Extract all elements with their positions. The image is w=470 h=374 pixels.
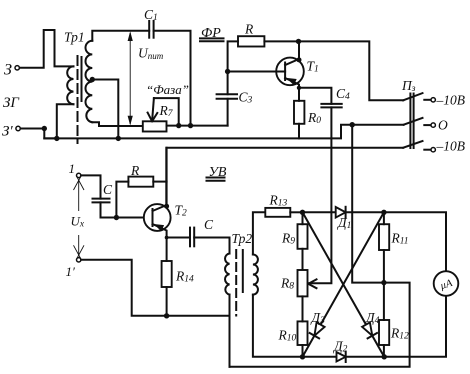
Тр1 tap wire down to bus [92, 80, 118, 139]
node R11-R12 (common) [381, 280, 386, 285]
Тр2 primary winding [225, 254, 229, 295]
wire З to Тр1 primary top (with jog) [20, 30, 74, 68]
bridge top wire with Д1 [303, 211, 336, 213]
node collector / top wire [296, 39, 301, 44]
node T1 emitter [297, 86, 301, 90]
R left lead down to base node [116, 182, 128, 218]
bottom switch wire to УВ [166, 148, 403, 207]
terminal З [4, 62, 19, 79]
wire Д2 to bottom-right node and meter [346, 296, 446, 357]
Тр2 secondary bottom lead to bridge bottom [253, 295, 303, 357]
Тр1 secondary winding [86, 41, 93, 123]
C4 bottom lead down to R8 wiper [308, 107, 331, 283]
node on З' wire [42, 126, 47, 131]
resistor R (УВ) [128, 163, 153, 187]
svg-text:ЗГ: ЗГ [3, 95, 20, 111]
svg-text:R: R [244, 22, 254, 37]
terminal 1 [69, 161, 81, 178]
svg-text:С: С [204, 217, 214, 232]
svg-text:R: R [130, 163, 140, 178]
node bus / Тр1 primary bottom [54, 136, 59, 141]
svg-text:З′: З′ [2, 124, 13, 140]
bridge bottom wire with Д2 [303, 356, 337, 358]
wire switch middle node down to R11-R12 node [230, 125, 410, 367]
svg-text:Тр1: Тр1 [64, 30, 85, 45]
resistor R10 [278, 296, 308, 356]
svg-text:1′: 1′ [66, 264, 76, 279]
switch П3 arms [403, 93, 422, 148]
capacitor C (coupling) [190, 217, 214, 246]
Тр2 core solid line [242, 250, 244, 292]
switch contacts right [424, 98, 435, 152]
bridge bottom-left node [300, 354, 305, 359]
wire R left / C3 vertical [228, 41, 238, 94]
node T1 base / C3 [225, 69, 230, 74]
meter μA [434, 271, 459, 296]
svg-text:О: О [438, 118, 448, 133]
svg-text:–10В: –10В [436, 139, 466, 154]
wire R7 right to C3 bottom [167, 125, 228, 127]
svg-text:З: З [4, 62, 12, 79]
section label ФР [200, 26, 224, 41]
wire terminal 1 to C [81, 175, 100, 198]
diagonal node A to bottom-right [303, 212, 385, 356]
Ux arrow top head [74, 176, 85, 211]
Тр2 core dashed line [235, 250, 237, 316]
capacitor C4 [321, 86, 350, 107]
resistor R11 [379, 212, 409, 282]
wire R right to collector node [264, 40, 298, 42]
switch П3 linkage [410, 94, 413, 149]
diode Д3 [310, 310, 326, 338]
transistor T2 [144, 148, 187, 238]
wire C to Тр2 primary [194, 238, 229, 254]
Тр2 primary bottom lead to common bus [229, 295, 231, 367]
diode Д2 [332, 339, 348, 363]
Ux arrow bottom head [74, 235, 85, 259]
capacitor C3 [217, 90, 253, 106]
diode Д1 [336, 207, 352, 231]
svg-text:–10В: –10В [436, 93, 466, 108]
node B (bridge top-right) [381, 210, 386, 215]
resistor R13 [265, 193, 290, 217]
svg-text:“Фаза”: “Фаза” [146, 82, 189, 97]
Тр1 primary bottom lead [57, 104, 74, 138]
C bottom to T2 base [101, 202, 153, 217]
terminal З' [2, 124, 20, 140]
svg-text:1: 1 [69, 161, 76, 176]
top wire to П3 [299, 41, 404, 100]
З' bus [44, 125, 352, 139]
Uпит arrow (double headed) [128, 31, 164, 125]
resistor R (ФР) [238, 22, 264, 47]
capacitor C1 [144, 7, 158, 38]
node tap wire / bus [116, 136, 121, 141]
Тр1 core dashed line [77, 56, 79, 143]
emitter wire to C4 [299, 88, 331, 104]
svg-text:Тр2: Тр2 [232, 231, 253, 246]
diagonal node B to bottom-left [303, 212, 384, 356]
bridge bottom-right node [382, 354, 387, 359]
emitter wire to coupling C [167, 237, 190, 239]
terminal 1' [66, 258, 81, 279]
node A (bridge top-left) [300, 210, 305, 215]
node C1 lead [188, 123, 193, 128]
Тр1 secondary top lead to top bus [92, 31, 149, 41]
diode Д4 [362, 310, 379, 338]
R13 right lead [290, 211, 302, 213]
node R7 loop [176, 123, 181, 128]
wire З' to bus [21, 129, 57, 139]
node base T2 [114, 215, 119, 220]
section label УВ [207, 165, 227, 181]
node T2 emitter [165, 236, 169, 240]
resistor R9 [281, 212, 308, 270]
wire Д1 to node B [346, 211, 384, 213]
R right lead [153, 181, 166, 183]
wire C1 right, down to R7 node [154, 31, 191, 126]
capacitor C (input) [93, 182, 114, 202]
resistor R0 [294, 88, 321, 139]
wire terminal 1' to Тр2 primary bottom [81, 260, 229, 316]
potentiometer R7 [143, 103, 174, 132]
resistor R12 [379, 283, 409, 357]
svg-text:С: С [103, 182, 113, 197]
Тр1 primary winding [67, 66, 73, 104]
Тр2 secondary winding [253, 255, 258, 295]
potentiometer R8 [280, 270, 308, 296]
Тр1 core solid line [81, 57, 83, 101]
C3 bottom lead [227, 99, 229, 126]
wire node B to meter [384, 212, 446, 271]
R8 wiper arrowhead [306, 279, 317, 285]
Тр1 secondary bottom lead [92, 122, 143, 126]
transistor T1 [228, 41, 319, 87]
switch middle wire [352, 124, 403, 126]
node R14 bottom [164, 313, 169, 318]
resistor R14 [162, 238, 194, 316]
Тр2 secondary top lead to R13 [253, 212, 265, 254]
R7 wiper arrow and loop to right terminal [148, 98, 179, 126]
Тр1 secondary tap node [90, 77, 95, 82]
node switch middle / bridge feed [350, 122, 355, 127]
